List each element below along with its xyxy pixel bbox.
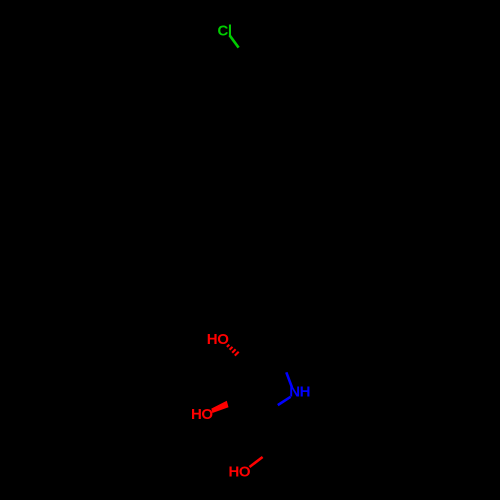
solid wedge bond O-C (red half) [211, 401, 228, 413]
hashed wedge bond O-C (red half), 4 dashes [227, 345, 239, 356]
svg-text:HO: HO [207, 331, 229, 348]
svg-text:HO: HO [229, 463, 251, 480]
wire: O-CH2 bond red half [250, 457, 263, 467]
wire: N-C bond blue half (lower left) [278, 397, 291, 405]
wire: C-Cl bond green half [230, 35, 239, 47]
svg-text:HO: HO [191, 406, 213, 423]
wire: C-N bond blue half (upper) [286, 372, 292, 387]
